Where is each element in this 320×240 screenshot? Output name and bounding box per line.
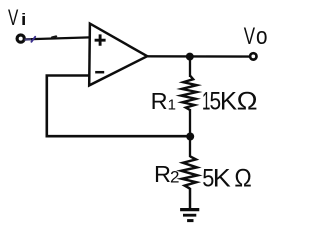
label R2 bbox=[154, 161, 179, 187]
node: lower junction dot bbox=[186, 133, 194, 141]
svg-text:Ω: Ω bbox=[237, 88, 258, 116]
resistor R2 zigzag bbox=[181, 156, 197, 188]
wire: lower junction to resistor R2 bbox=[189, 137, 191, 158]
svg-text:2: 2 bbox=[170, 167, 179, 186]
wire: input terminal to op-amp + input bbox=[24, 37, 89, 39]
op-amp - input marking bbox=[95, 71, 104, 74]
ground symbol bbox=[180, 210, 199, 221]
label 5K Ohm bbox=[202, 164, 252, 192]
svg-text:V: V bbox=[244, 23, 255, 50]
resistor R1 zigzag bbox=[181, 76, 197, 111]
svg-text:1: 1 bbox=[168, 96, 176, 113]
label Vi bbox=[8, 5, 27, 30]
label Vo bbox=[244, 23, 268, 50]
node: output junction dot bbox=[186, 53, 194, 61]
artifact: blue pen tick on input wire bbox=[31, 37, 35, 42]
svg-text:R: R bbox=[151, 88, 168, 114]
op-amp + input marking bbox=[95, 34, 106, 45]
op-amp U1 triangle bbox=[89, 24, 147, 86]
wire: op-amp output to Vo terminal bbox=[146, 55, 251, 58]
svg-text:R: R bbox=[154, 161, 171, 187]
svg-text:Ω: Ω bbox=[234, 164, 251, 192]
label R1 bbox=[151, 88, 176, 114]
feedback wire: - input, left leg and bottom leg to lower junction bbox=[47, 76, 188, 137]
artifact: small bump on input wire bbox=[52, 36, 56, 37]
label 15KOhm bbox=[202, 88, 258, 116]
svg-text:o: o bbox=[256, 23, 268, 50]
wire: R2 to ground bbox=[189, 188, 192, 208]
svg-text:i: i bbox=[20, 11, 27, 29]
svg-text:K: K bbox=[213, 164, 231, 192]
input terminal (open circle) bbox=[17, 35, 24, 42]
wire: R1 to lower junction bbox=[189, 109, 191, 137]
output terminal Vo (open circle) bbox=[250, 53, 256, 59]
wire: junction to resistor R1 bbox=[189, 57, 191, 77]
svg-text:V: V bbox=[8, 5, 19, 30]
svg-text:K: K bbox=[220, 88, 238, 116]
